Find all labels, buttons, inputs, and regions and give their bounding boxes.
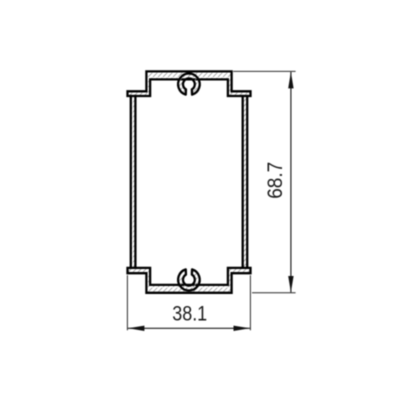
profile outer outline (128, 71, 251, 292)
dimension line 68.7 (290, 72, 292, 292)
arrowhead right (234, 326, 250, 331)
bottom screw boss outline (178, 269, 200, 290)
wall junction lines (ear/side-wall intersections) (130, 96, 249, 268)
extension line top (68.7) (233, 70, 295, 72)
svg-text:38.1: 38.1 (172, 303, 207, 326)
profile wall section hatch (outer outline + inner cavity outline, evenodd) (128, 71, 251, 292)
extension line left (38.1) (126, 275, 128, 330)
arrowhead left (128, 326, 144, 331)
arrowhead top (288, 72, 293, 88)
top screw boss hatch (178, 74, 200, 95)
extension line bottom (68.7) (252, 292, 296, 294)
top screw boss outline (178, 74, 200, 95)
svg-text:68.7: 68.7 (264, 162, 287, 199)
arrowhead bottom (288, 276, 293, 292)
bottom screw boss hatch (178, 269, 200, 290)
dimension line 38.1 (128, 327, 250, 329)
profile inner cavity outline (135, 79, 242, 285)
extension line right (38.1) (249, 275, 251, 330)
